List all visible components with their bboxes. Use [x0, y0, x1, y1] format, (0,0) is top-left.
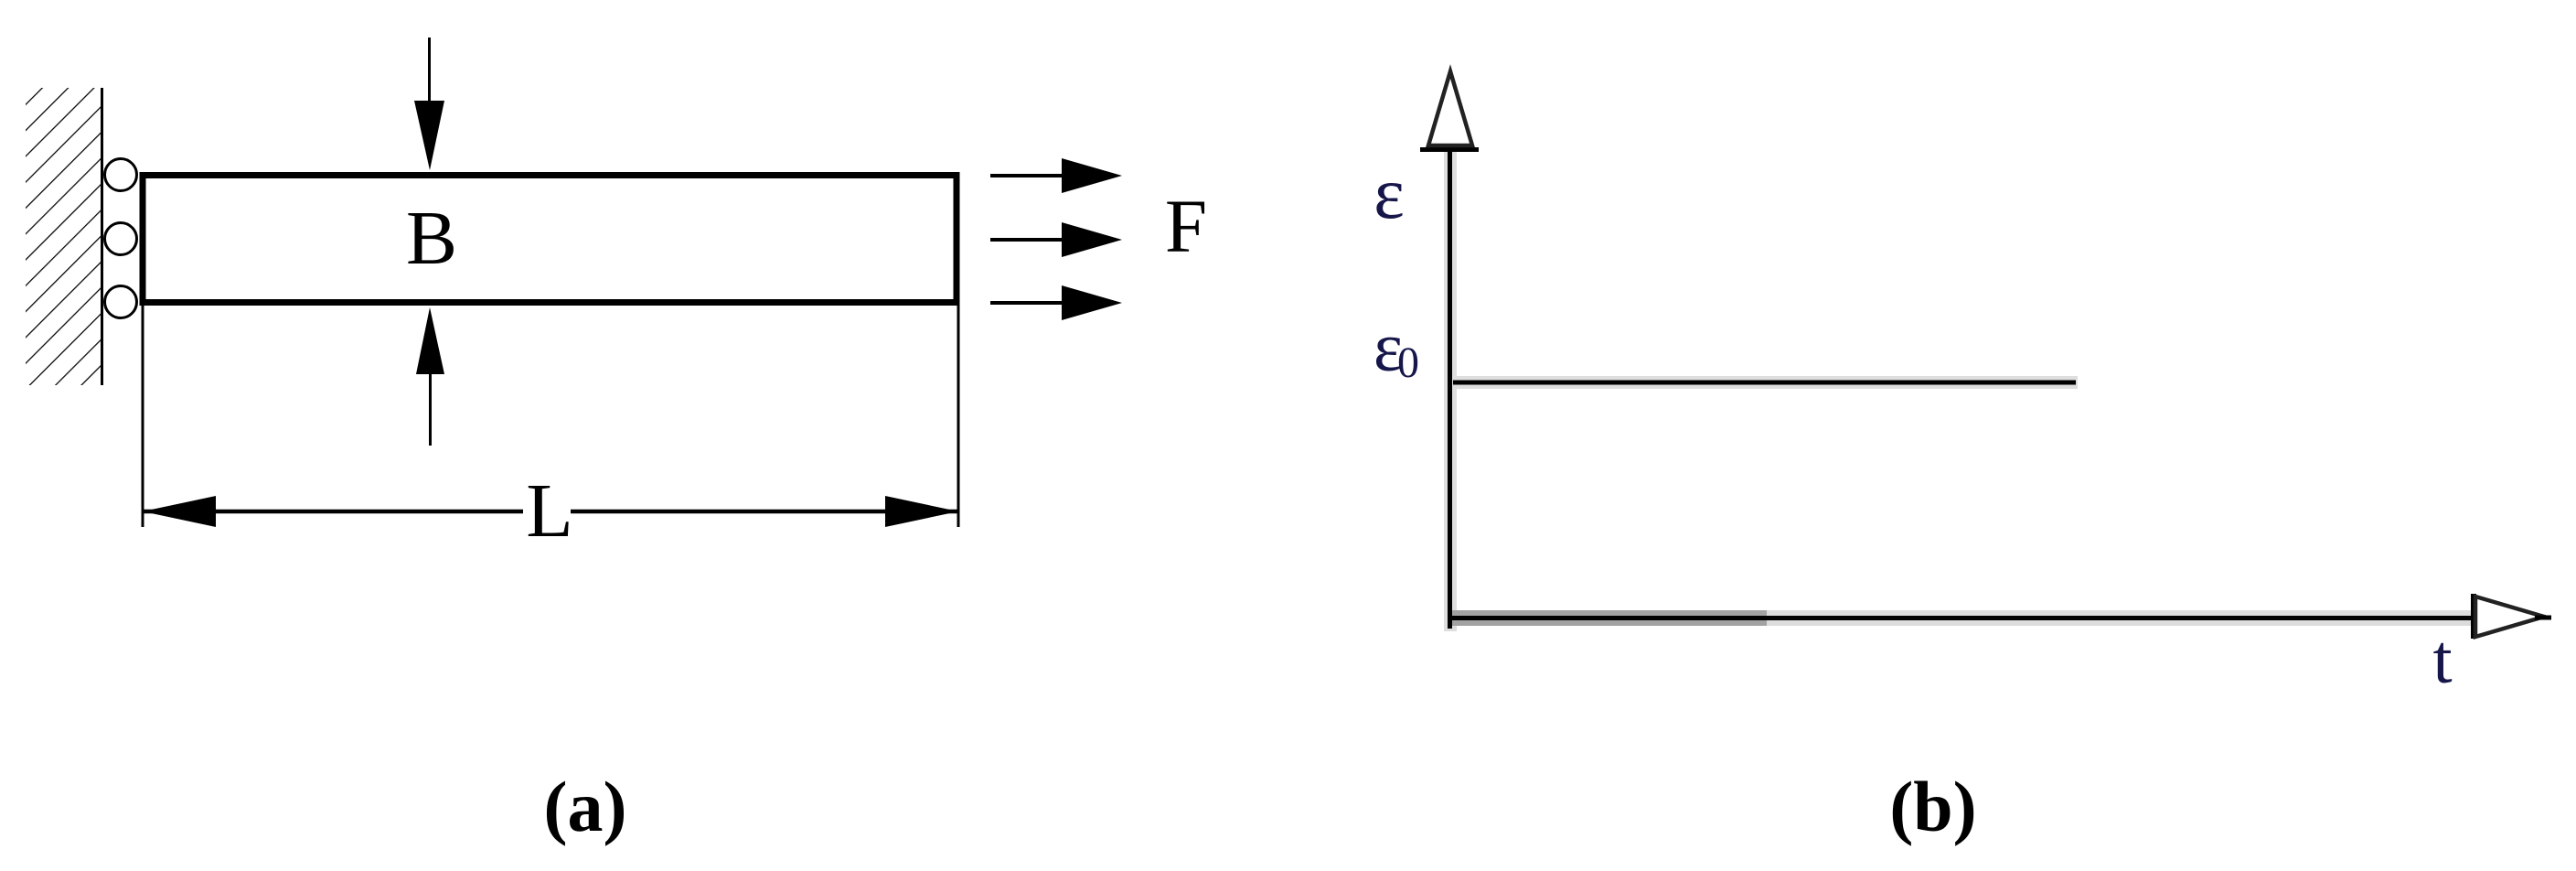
svg-text:(b): (b) [1889, 767, 1976, 846]
svg-text:F: F [1165, 184, 1207, 268]
svg-text:B: B [406, 196, 457, 281]
svg-text:(a): (a) [544, 767, 627, 846]
svg-text:L: L [526, 468, 572, 554]
svg-text:0: 0 [1397, 339, 1419, 387]
svg-text:t: t [2432, 621, 2452, 698]
svg-text:ε: ε [1374, 154, 1405, 234]
